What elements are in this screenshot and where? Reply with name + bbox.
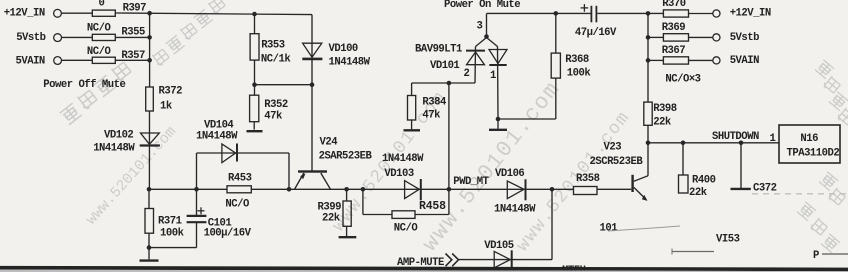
svg-text:VD102: VD102 xyxy=(104,130,133,142)
svg-text:R397: R397 xyxy=(123,3,147,15)
svg-text:R352: R352 xyxy=(264,99,288,111)
svg-text:22k: 22k xyxy=(653,117,672,129)
svg-text:R384: R384 xyxy=(422,96,447,108)
svg-text:1N4148W: 1N4148W xyxy=(494,204,536,216)
svg-text:5VAIN: 5VAIN xyxy=(16,55,45,67)
svg-text:Power Off Mute: Power Off Mute xyxy=(43,79,125,91)
svg-text:V24: V24 xyxy=(320,137,339,149)
svg-text:SHUTDOWN: SHUTDOWN xyxy=(712,131,759,143)
svg-text:47k: 47k xyxy=(422,109,441,121)
svg-text:1N4148W: 1N4148W xyxy=(329,57,371,69)
svg-text:R370: R370 xyxy=(662,0,686,10)
svg-text:NC/O: NC/O xyxy=(87,23,111,35)
svg-text:22k: 22k xyxy=(322,213,341,225)
svg-text:1: 1 xyxy=(770,133,776,145)
svg-text:NC/O: NC/O xyxy=(87,46,111,58)
svg-text:22k: 22k xyxy=(689,187,708,199)
svg-text:R358: R358 xyxy=(576,173,600,185)
svg-text:1N4148W: 1N4148W xyxy=(382,153,424,165)
svg-text:3: 3 xyxy=(477,21,483,33)
svg-text:VD106: VD106 xyxy=(495,168,524,180)
svg-text:R369: R369 xyxy=(662,22,686,34)
svg-text:VD105: VD105 xyxy=(484,240,513,252)
svg-text:100μ/16V: 100μ/16V xyxy=(204,228,252,240)
svg-text:5Vstb: 5Vstb xyxy=(730,32,759,44)
svg-text:2SCR523EB: 2SCR523EB xyxy=(590,156,644,168)
svg-text:1: 1 xyxy=(490,70,496,82)
svg-text:VI53: VI53 xyxy=(716,234,740,246)
svg-text:0: 0 xyxy=(99,0,105,10)
svg-text:NC/O×3: NC/O×3 xyxy=(665,73,700,85)
svg-text:V23: V23 xyxy=(604,142,622,154)
svg-text:R371: R371 xyxy=(158,215,182,227)
svg-text:PWD_MT: PWD_MT xyxy=(453,176,489,188)
svg-text:R453: R453 xyxy=(228,173,252,185)
svg-text:R400: R400 xyxy=(692,175,716,187)
svg-text:R372: R372 xyxy=(159,86,183,98)
svg-text:NC/O: NC/O xyxy=(394,223,418,235)
svg-text:NC/1k: NC/1k xyxy=(261,54,291,66)
svg-text:C372: C372 xyxy=(753,183,777,195)
svg-text:5Vstb: 5Vstb xyxy=(16,32,45,44)
svg-text:2SAR523EB: 2SAR523EB xyxy=(319,151,373,163)
svg-text:1N4148W: 1N4148W xyxy=(196,131,238,143)
svg-text:Power On Mute: Power On Mute xyxy=(444,0,520,11)
svg-text:VD100: VD100 xyxy=(329,43,358,55)
svg-text:R355: R355 xyxy=(121,27,145,39)
svg-text:+12V_IN: +12V_IN xyxy=(4,8,45,20)
svg-text:TPA3110D2: TPA3110D2 xyxy=(787,148,840,160)
svg-text:47k: 47k xyxy=(264,111,283,123)
svg-text:N16: N16 xyxy=(800,133,818,145)
svg-text:VD101: VD101 xyxy=(430,60,459,72)
svg-text:101: 101 xyxy=(600,223,618,235)
svg-text:R353: R353 xyxy=(261,40,285,52)
svg-text:100k: 100k xyxy=(160,228,185,240)
svg-text:+12V_IN: +12V_IN xyxy=(730,7,771,19)
svg-text:2: 2 xyxy=(464,68,470,80)
svg-text:5VAIN: 5VAIN xyxy=(730,55,759,67)
svg-text:1N4148W: 1N4148W xyxy=(93,142,135,154)
svg-text:100k: 100k xyxy=(567,68,592,80)
svg-text:R368: R368 xyxy=(565,54,589,66)
svg-text:R357: R357 xyxy=(121,50,145,62)
svg-text:VD103: VD103 xyxy=(384,168,413,180)
svg-text:NC/O: NC/O xyxy=(225,199,249,211)
svg-text:R398: R398 xyxy=(653,103,677,115)
svg-text:R367: R367 xyxy=(662,45,686,57)
svg-text:1k: 1k xyxy=(160,101,173,113)
svg-text:P: P xyxy=(813,250,819,262)
svg-text:BAV99LT1: BAV99LT1 xyxy=(415,44,462,56)
svg-text:R458: R458 xyxy=(419,200,446,213)
svg-text:47μ/16V: 47μ/16V xyxy=(575,27,617,39)
